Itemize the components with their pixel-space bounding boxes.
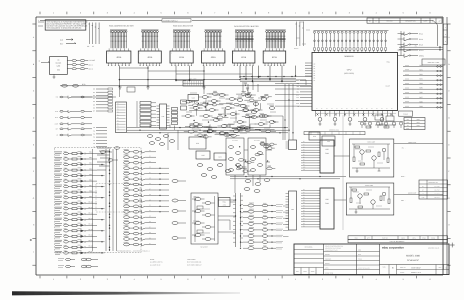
wire8 — [119, 86, 121, 97]
svg-text:D5: D5 — [93, 104, 95, 106]
svg-text:KB-5: KB-5 — [89, 174, 92, 176]
svg-text:G5: G5 — [149, 232, 151, 234]
upper left input rows — [55, 96, 92, 137]
top right supply rows — [399, 44, 443, 50]
svg-text:APPR: APPR — [311, 271, 315, 273]
net name smudges — [97, 148, 111, 170]
svg-text:H-COUNT: H-COUNT — [254, 140, 260, 142]
bias network — [358, 122, 403, 129]
logic gates center — [182, 93, 279, 134]
svg-text:556: 556 — [57, 69, 60, 72]
svg-text:A4: A4 — [314, 73, 316, 75]
svg-text:SCALE: SCALE — [400, 272, 404, 274]
CPU U30 — [312, 53, 398, 111]
svg-text:1: 1 — [295, 278, 296, 281]
svg-text:KB-16: KB-16 — [89, 235, 93, 237]
svg-text:1: 1 — [53, 278, 54, 281]
svg-text:U1: U1 — [57, 59, 59, 62]
svg-text:FINISH: FINISH — [358, 259, 362, 261]
zone ruler ticks bottom — [40, 276, 431, 281]
svg-text:S2: S2 — [93, 134, 95, 136]
crystal box — [219, 198, 231, 207]
unused legend — [187, 258, 202, 267]
ref des legend — [150, 258, 163, 267]
svg-text:GND: GND — [406, 128, 409, 130]
svg-text:APPR: APPR — [325, 268, 329, 270]
svg-text:3: 3 — [349, 12, 350, 15]
svg-text:4016: 4016 — [116, 56, 122, 59]
svg-text:2: 2 — [80, 12, 81, 15]
gate U13 — [188, 95, 199, 104]
address bus lines — [127, 127, 288, 133]
svg-text:ZONE: ZONE — [431, 237, 435, 239]
CPU left pins — [296, 63, 312, 108]
power label box — [399, 111, 413, 116]
svg-text:SPARE GATES: SPARE GATES — [428, 182, 437, 184]
svg-text:KB-14: KB-14 — [89, 224, 93, 226]
resistor array RN2 — [138, 30, 161, 66]
dashed box caption — [117, 251, 150, 253]
svg-text:G8: G8 — [149, 194, 151, 196]
gate column A — [124, 150, 156, 246]
gates before columns — [101, 147, 120, 161]
svg-text:V-COUNT: V-COUNT — [232, 140, 238, 142]
svg-text:G2: G2 — [149, 161, 151, 163]
svg-text:4: 4 — [134, 12, 135, 15]
svg-text:KB-8: KB-8 — [89, 190, 92, 192]
svg-text:2: 2 — [80, 278, 81, 281]
svg-text:SCALE NONE: SCALE NONE — [325, 272, 333, 274]
svg-text:U12: U12 — [422, 197, 425, 199]
data stub wires top — [294, 22, 303, 50]
svg-text:SPEC: SPEC — [422, 237, 426, 239]
svg-text:7905: 7905 — [417, 125, 420, 127]
small latch pair — [181, 100, 187, 110]
svg-text:+5V: +5V — [407, 119, 409, 121]
svg-text:MATL: MATL — [412, 237, 416, 239]
svg-text:D1: D1 — [93, 92, 95, 94]
wire — [176, 81, 204, 95]
sheet index box — [443, 24, 447, 45]
data stub column lower — [93, 127, 107, 148]
svg-text:A0: A0 — [314, 64, 316, 66]
svg-text:RAM DATA SELECTOR: RAM DATA SELECTOR — [173, 24, 194, 27]
output wires — [343, 115, 443, 230]
svg-text:7812: 7812 — [417, 122, 420, 124]
svg-text:TSC: TSC — [296, 97, 299, 99]
svg-text:1: 1 — [53, 12, 54, 15]
svg-text:MATL: MATL — [358, 254, 361, 256]
svg-text:QTY: QTY — [367, 237, 370, 239]
svg-text:UNLESS OTHERWISE SPECIFIED: UNLESS OTHERWISE SPECIFIED — [325, 246, 343, 248]
svg-text:7805: 7805 — [417, 119, 420, 121]
svg-text:DRAWN: DRAWN — [325, 254, 330, 256]
svg-text:G1: G1 — [149, 156, 151, 158]
counter chain blocks — [226, 138, 272, 175]
svg-text:6: 6 — [187, 278, 188, 281]
sheet border frame — [36, 17, 443, 275]
svg-text:DATA SELECTOR / BUFFER: DATA SELECTOR / BUFFER — [234, 25, 259, 28]
main horizontal bus — [60, 83, 311, 87]
svg-text:S0: S0 — [93, 127, 95, 129]
svg-text:8: 8 — [241, 278, 242, 281]
vertical bus to ram — [285, 84, 294, 140]
glue logic boxes — [322, 115, 396, 146]
svg-text:2: 2 — [322, 12, 323, 15]
svg-text:1/4 7400: 1/4 7400 — [434, 186, 439, 188]
svg-text:DATE: DATE — [303, 271, 306, 273]
svg-text:5: 5 — [160, 12, 161, 15]
svg-text:81-E-0017: 81-E-0017 — [411, 267, 421, 270]
svg-text:4016: 4016 — [147, 56, 153, 59]
address stub wires — [87, 23, 99, 49]
svg-text:D3: D3 — [93, 98, 95, 100]
svg-text:3: 3 — [107, 12, 108, 15]
spare input rows — [58, 258, 98, 268]
svg-text:S1: S1 — [93, 130, 95, 132]
latch array U10 — [137, 101, 156, 127]
svg-text:edac corporation: edac corporation — [382, 247, 404, 250]
svg-text:A5: A5 — [314, 75, 316, 77]
svg-text:DESC: DESC — [401, 237, 405, 239]
svg-text:(MPU 6800): (MPU 6800) — [344, 72, 354, 75]
svg-text:G3: G3 — [149, 167, 151, 169]
array link wires — [120, 67, 253, 74]
svg-text:MB8861N: MB8861N — [345, 55, 354, 58]
svg-text:6: 6 — [429, 12, 430, 15]
svg-text:4: 4 — [134, 278, 135, 281]
svg-text:DO NOT SCALE DWG: DO NOT SCALE DWG — [358, 267, 370, 269]
secondary horizontal bus — [119, 79, 240, 92]
logic cluster U20 — [196, 151, 231, 178]
svg-text:D4: D4 — [93, 101, 95, 103]
svg-text:2: 2 — [322, 278, 323, 281]
svg-text:G5: G5 — [149, 178, 151, 180]
buffer stack U12 — [172, 108, 178, 131]
resistor array RN3 — [170, 30, 193, 66]
svg-text:G7: G7 — [149, 243, 151, 245]
svg-text:+12V: +12V — [406, 122, 409, 124]
left edge scan dot — [30, 239, 32, 241]
revision block — [367, 18, 442, 23]
sync gates U16 — [147, 135, 206, 149]
svg-text:S3: S3 — [93, 137, 95, 139]
dense logic mush2 — [236, 142, 277, 172]
svg-text:TOLERANCES .XX ±.03: TOLERANCES .XX ±.03 — [325, 250, 338, 252]
sheet border inner right line — [446, 17, 448, 275]
svg-text:KB-11: KB-11 — [89, 207, 93, 209]
right misc label 3 — [401, 199, 406, 202]
svg-text:MODEL 4080: MODEL 4080 — [406, 255, 421, 258]
svg-text:4016: 4016 — [179, 56, 185, 59]
svg-text:G6: G6 — [149, 237, 151, 239]
wire7 — [218, 220, 230, 230]
address bus tag strip — [304, 130, 365, 135]
svg-text:7: 7 — [214, 12, 215, 15]
svg-text:SIZE: SIZE — [383, 266, 386, 268]
registration mark — [450, 243, 455, 248]
right misc label 2 — [401, 175, 407, 178]
svg-text:A1: A1 — [314, 66, 316, 68]
connector J3 box — [116, 102, 127, 133]
svg-text:P10: P10 — [117, 129, 119, 131]
sync distribution wires — [230, 175, 346, 193]
svg-text:5: 5 — [160, 278, 161, 281]
upper left long wire — [71, 96, 116, 98]
svg-text:J: J — [33, 251, 34, 254]
label ram address selector — [109, 24, 134, 27]
bus taps — [150, 76, 294, 133]
svg-text:8216: 8216 — [272, 56, 278, 59]
svg-text:1: 1 — [295, 12, 296, 15]
svg-text:G4: G4 — [149, 172, 151, 174]
clock input arrows — [60, 38, 76, 45]
svg-text:-5V: -5V — [407, 125, 409, 127]
zone ruler ticks top — [40, 12, 431, 15]
svg-text:1/6 7404: 1/6 7404 — [434, 190, 439, 192]
svg-text:G3: G3 — [149, 221, 151, 223]
bottom scan smear — [12, 291, 240, 295]
wire6 — [334, 156, 350, 200]
output driver column — [240, 204, 283, 250]
data bus band — [240, 76, 296, 82]
gates above drivers — [244, 179, 270, 193]
svg-text:KB-19: KB-19 — [89, 251, 93, 253]
svg-text:U7: U7 — [422, 190, 424, 192]
svg-text:3: 3 — [107, 278, 108, 281]
data stub column upper — [93, 88, 112, 113]
svg-text:G0: G0 — [149, 150, 151, 152]
svg-text:A6: A6 — [314, 78, 316, 80]
svg-text:A2: A2 — [314, 68, 316, 70]
svg-text:4: 4 — [376, 278, 377, 281]
svg-text:KB-12: KB-12 — [89, 212, 93, 214]
svg-text:KB-18: KB-18 — [89, 246, 93, 248]
row extension wires — [156, 168, 169, 213]
svg-text:5: 5 — [403, 278, 404, 281]
svg-text:5: 5 — [403, 12, 404, 15]
svg-text:DIMENSIONS ARE IN INCHES: DIMENSIONS ARE IN INCHES — [325, 248, 341, 250]
svg-text:THIS DOCUMENT IS GRANTED OR IM: THIS DOCUMENT IS GRANTED OR IMPLIED. — [47, 27, 83, 30]
svg-text:KB-4: KB-4 — [89, 168, 92, 170]
svg-text:ADDRESS BUS: ADDRESS BUS — [329, 130, 339, 132]
svg-text:A3: A3 — [314, 71, 316, 73]
svg-text:DATE: DATE — [358, 249, 361, 251]
svg-text:KB-9: KB-9 — [89, 196, 92, 198]
svg-text:KB-6: KB-6 — [89, 179, 92, 181]
component value specks — [64, 22, 410, 251]
svg-text:A7: A7 — [314, 80, 316, 82]
vertical wires center — [243, 82, 258, 94]
zone ruler ticks left — [32, 24, 35, 265]
svg-text:KB-2: KB-2 — [89, 157, 92, 159]
svg-text:KB-13: KB-13 — [89, 218, 93, 220]
gate U14 box — [309, 132, 320, 140]
svg-text:S4: S4 — [93, 140, 95, 142]
svg-text:8: 8 — [241, 12, 242, 15]
top bus wire with connector label — [40, 19, 438, 46]
bus drop wires — [119, 66, 296, 87]
svg-text:VMA: VMA — [296, 92, 299, 94]
buffer U33 U34 — [286, 140, 297, 230]
svg-text:6: 6 — [187, 12, 188, 15]
gate to cpu wires — [275, 83, 300, 106]
RA bus rows — [403, 64, 443, 108]
svg-text:REV: REV — [296, 271, 299, 273]
driver to buffer wires — [283, 206, 289, 237]
svg-text:G0: G0 — [149, 205, 151, 207]
svg-text:CHECKED: CHECKED — [325, 259, 331, 261]
svg-text:D0: D0 — [93, 89, 95, 91]
title block — [294, 244, 449, 275]
svg-text:REV: REV — [439, 267, 442, 269]
svg-text:4: 4 — [376, 12, 377, 15]
audio amp block — [346, 183, 394, 215]
svg-text:G4: G4 — [149, 227, 151, 229]
svg-text:4016: 4016 — [211, 56, 217, 59]
svg-text:9: 9 — [268, 278, 269, 281]
svg-text:KB-3: KB-3 — [89, 163, 92, 165]
list of materials strip — [348, 236, 448, 243]
svg-text:G1: G1 — [149, 210, 151, 212]
svg-text:U36: U36 — [325, 198, 328, 201]
svg-text:G9: G9 — [149, 199, 151, 201]
resistor array RN5 — [232, 30, 255, 66]
svg-text:PART NO: PART NO — [382, 237, 388, 239]
CPU bottom pins — [316, 111, 397, 126]
svg-text:8216: 8216 — [241, 56, 247, 59]
svg-text:KB-1: KB-1 — [89, 152, 92, 154]
svg-text:RAM ADDRESS SELECTOR: RAM ADDRESS SELECTOR — [109, 24, 134, 27]
svg-text:KB-15: KB-15 — [89, 229, 93, 231]
dashed group outline — [55, 148, 142, 253]
svg-text:6: 6 — [429, 278, 430, 281]
flip flop cluster — [191, 193, 236, 249]
vertical bus pair — [233, 193, 243, 247]
video amp block — [350, 139, 394, 177]
right misc label 1 — [401, 147, 406, 150]
svg-text:ITEM: ITEM — [354, 237, 357, 239]
svg-text:CONNECTOR J-2: CONNECTOR J-2 — [163, 19, 178, 22]
label data selector — [234, 25, 259, 28]
zone ruler ticks right — [447, 24, 450, 265]
svg-text:D6: D6 — [93, 108, 95, 110]
svg-text:G6: G6 — [149, 183, 151, 185]
CPU pull-up resistor row — [313, 31, 388, 53]
wire5 — [262, 116, 283, 140]
svg-text:1/4 7402: 1/4 7402 — [434, 193, 439, 195]
RAM U35 U36 — [317, 140, 334, 229]
keyboard input rows — [55, 152, 110, 255]
spare gate table — [419, 180, 448, 199]
svg-text:CPU: CPU — [347, 69, 352, 72]
svg-text:KB-17: KB-17 — [89, 240, 93, 242]
note reference arrows — [38, 19, 44, 26]
svg-text:S5: S5 — [93, 143, 95, 145]
gate column C — [172, 180, 186, 240]
svg-text:REVISIONS: REVISIONS — [305, 247, 313, 249]
svg-text:D2: D2 — [93, 95, 95, 97]
RAM pin labels — [301, 141, 317, 227]
clock generator U1 — [39, 57, 95, 78]
label ram data selector — [173, 24, 194, 27]
wire4 — [168, 130, 178, 150]
power table — [404, 118, 425, 131]
svg-text:G2: G2 — [149, 216, 151, 218]
svg-text:U4: U4 — [422, 186, 424, 188]
svg-text:7: 7 — [214, 278, 215, 281]
wire2 — [230, 202, 248, 212]
svg-text:D7: D7 — [93, 111, 95, 113]
svg-text:A11: A11 — [303, 169, 305, 171]
svg-text:DWG NO: DWG NO — [400, 267, 405, 269]
resistor array RN6 — [263, 30, 286, 66]
svg-text:KB-10: KB-10 — [89, 201, 93, 203]
svg-text:KEYBOARD MATRIX — SEE SHEET: KEYBOARD MATRIX — SEE SHEET 2 TABLE A-1 — [117, 251, 150, 253]
resistor array RN1 — [107, 30, 131, 66]
svg-text:HALT: HALT — [296, 80, 300, 82]
svg-text:3: 3 — [349, 278, 350, 281]
svg-text:U9: U9 — [422, 193, 424, 195]
svg-text:A10: A10 — [303, 167, 305, 169]
decoder U11 — [157, 104, 170, 129]
bus tap strip — [183, 78, 204, 86]
svg-text:POWER: POWER — [403, 114, 408, 116]
dense logic mush — [182, 91, 276, 138]
decode label box — [422, 59, 445, 65]
vertical bus column left — [93, 149, 117, 251]
svg-text:9: 9 — [268, 12, 269, 15]
logic gates center2 — [237, 95, 275, 118]
resistor array RN4 — [202, 30, 225, 66]
svg-text:U35: U35 — [325, 148, 328, 151]
svg-text:ANAHEIM, CALIF.: ANAHEIM, CALIF. — [428, 247, 440, 249]
gate cluster U40 — [398, 31, 425, 57]
ground symbols — [118, 83, 249, 90]
svg-text:1/2 7474: 1/2 7474 — [434, 197, 439, 199]
svg-text:G7: G7 — [149, 188, 151, 190]
note box — [45, 20, 88, 30]
svg-text:SCHEMATIC: SCHEMATIC — [407, 259, 420, 262]
svg-text:KB-7: KB-7 — [89, 185, 92, 187]
svg-text:ENGRG: ENGRG — [325, 263, 330, 265]
wire3 — [296, 77, 312, 86]
